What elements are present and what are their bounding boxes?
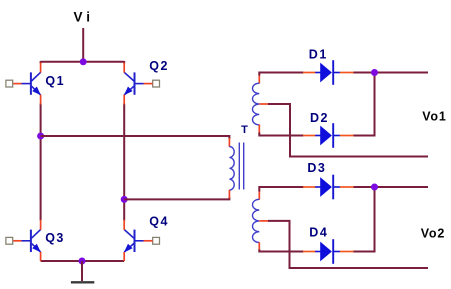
- svg-text:Q2: Q2: [149, 59, 169, 73]
- diode D1: [303, 60, 354, 85]
- wire node A to primary top: [41, 136, 230, 139]
- diode D4: [303, 239, 354, 264]
- svg-text:D4: D4: [309, 226, 328, 240]
- wire node Vo2 to output: [375, 186, 429, 188]
- transistor Q1: [6, 63, 41, 105]
- wire node Vo1 down to D2 cathode: [354, 73, 375, 136]
- wire bottom rail: [41, 260, 125, 262]
- transformer T primary winding: [229, 138, 234, 198]
- svg-text:Q1: Q1: [45, 74, 65, 88]
- wire right vertical branch: [123, 61, 125, 221]
- label Vo2: [421, 227, 445, 241]
- transformer T secondary winding S1 (top): [252, 75, 269, 134]
- wire S2 top terminal to D3: [259, 187, 303, 192]
- transformer T secondary winding S2 (bottom): [252, 191, 269, 251]
- label T: [241, 124, 249, 136]
- transistor Q4: [124, 220, 160, 261]
- transformer T core: [239, 143, 243, 190]
- label D3: [307, 161, 326, 175]
- wire S2 center tap to Vo2 return: [268, 221, 428, 268]
- svg-text:Q3: Q3: [45, 231, 65, 245]
- diode D2: [303, 123, 354, 148]
- label Q2: [149, 59, 169, 73]
- label D4: [309, 226, 328, 240]
- ground: [71, 261, 94, 282]
- node A left branch to transformer primary top: [37, 133, 44, 140]
- wire node Vo1 to output: [375, 72, 429, 74]
- label Q1: [45, 74, 65, 88]
- label Q4: [149, 214, 169, 228]
- label D1: [309, 48, 328, 62]
- wire node Vo2 down to D4 cathode: [354, 187, 375, 252]
- wire S1 center tap to Vo1 return: [268, 104, 428, 157]
- svg-text:D1: D1: [309, 48, 328, 62]
- transistor Q3: [6, 220, 41, 261]
- wire left vertical branch: [40, 61, 42, 221]
- wire D1 cathode to node Vo1: [354, 72, 375, 74]
- node bottom rail / ground junction: [79, 258, 86, 265]
- svg-text:D3: D3: [307, 161, 326, 175]
- label Q3: [45, 231, 65, 245]
- node B right branch to transformer primary bottom: [121, 196, 128, 203]
- wire node B to primary bottom: [124, 197, 229, 199]
- svg-text:Q4: Q4: [149, 214, 169, 228]
- label Vo1: [422, 110, 446, 124]
- wire top rail: [41, 61, 125, 63]
- wire S1 top terminal to D1: [259, 73, 303, 76]
- label D2: [310, 111, 329, 125]
- diode D3: [303, 175, 354, 200]
- transistor Q2: [124, 63, 160, 105]
- svg-text:Vi: Vi: [74, 10, 95, 25]
- svg-text:T: T: [241, 124, 249, 136]
- node Vi junction on top rail: [80, 58, 87, 65]
- wire S2 bottom terminal to D4: [259, 250, 303, 252]
- wire S1 bottom terminal to D2: [259, 133, 303, 136]
- svg-text:D2: D2: [310, 111, 329, 125]
- node Vo1 junction: [371, 69, 378, 76]
- node Vo2 junction: [371, 184, 378, 191]
- svg-text:Vo2: Vo2: [421, 227, 445, 241]
- wire Vi input stem: [82, 28, 84, 62]
- label Vi: [74, 10, 95, 25]
- svg-text:Vo1: Vo1: [422, 110, 446, 124]
- wire D3 cathode to node Vo2: [354, 186, 375, 188]
